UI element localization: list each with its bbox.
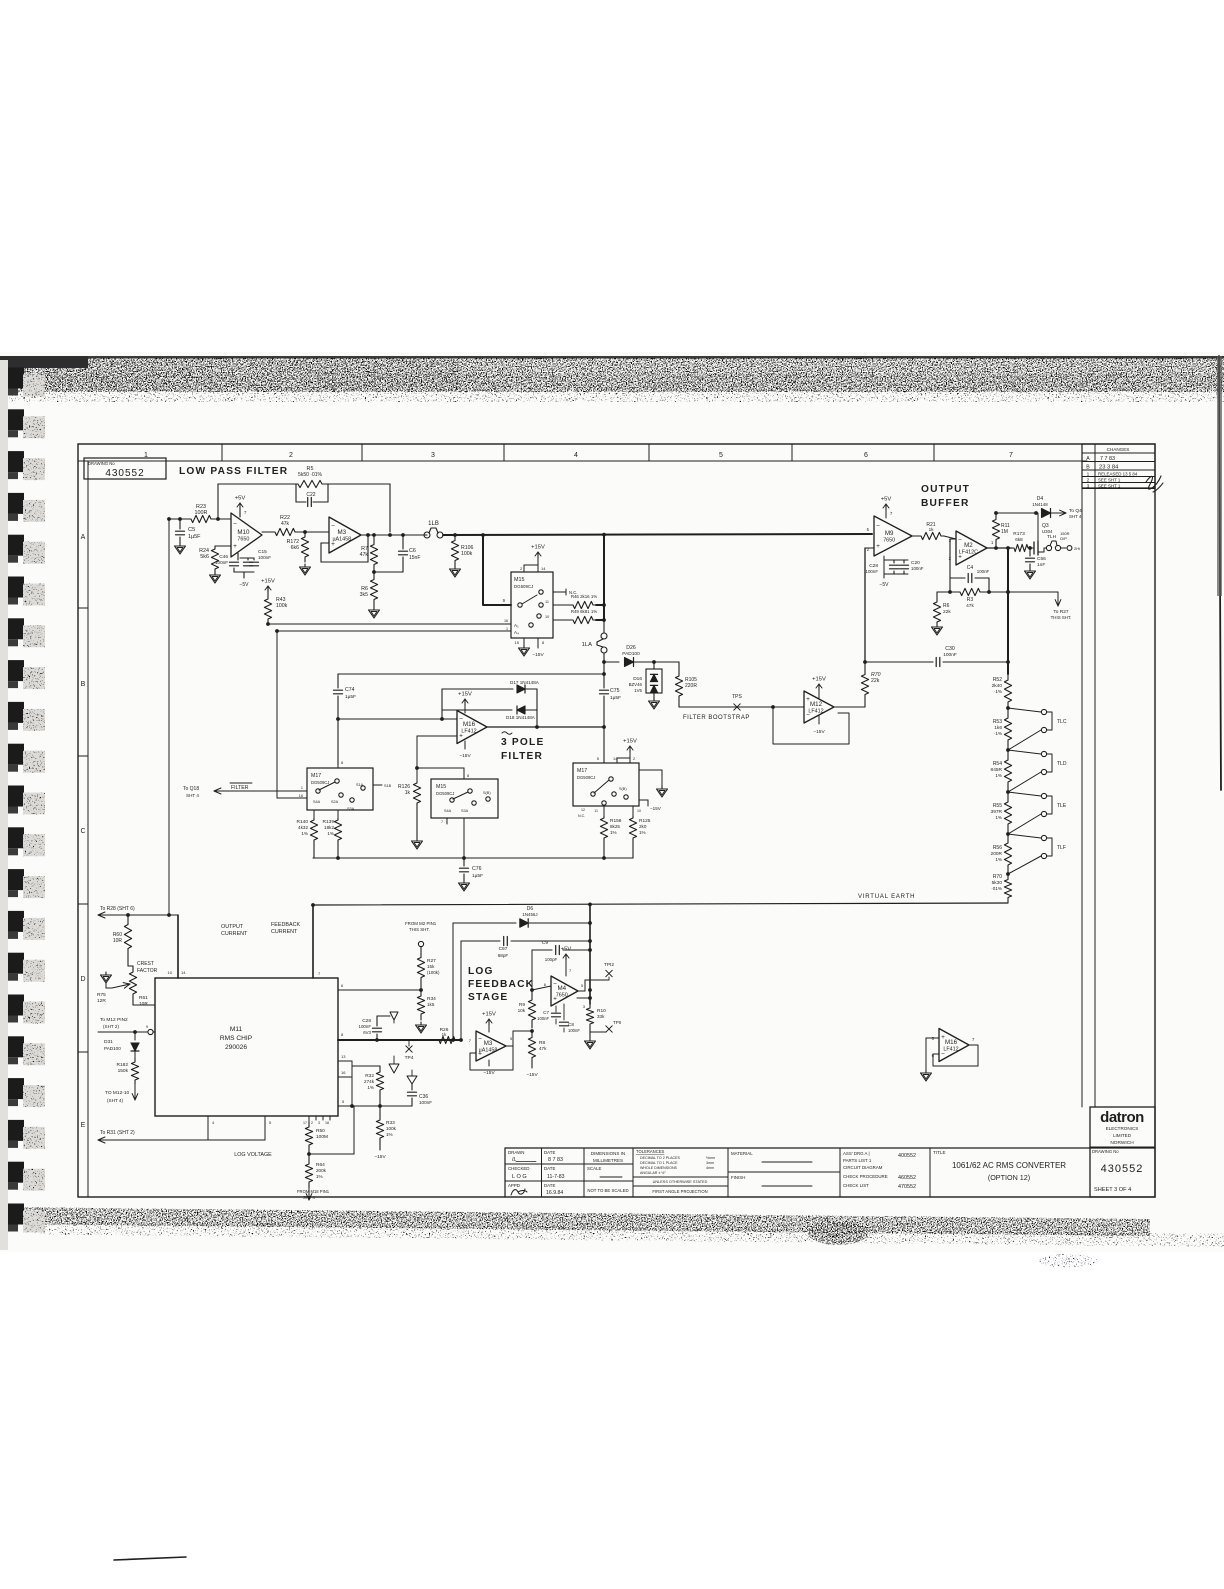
diode D4 — [1042, 509, 1051, 518]
op-amp M12 — [804, 691, 834, 723]
svg-text:M11: M11 — [230, 1026, 243, 1033]
svg-text:C9: C9 — [542, 940, 548, 946]
M17 second -15V — [639, 799, 648, 801]
diode D6 feedback — [453, 922, 516, 924]
svg-text:THIS SHT.: THIS SHT. — [409, 927, 430, 932]
M10 pin4 bypass C46 — [237, 553, 239, 560]
svg-text:6: 6 — [864, 452, 868, 459]
wire feedback current vertical — [312, 905, 314, 978]
capacitor C74 — [337, 674, 339, 688]
svg-text:SHT 4: SHT 4 — [186, 793, 199, 798]
ground for R106 — [454, 566, 456, 569]
resistor R26 — [434, 1036, 460, 1043]
svg-text:R61: R61 — [139, 995, 148, 1001]
svg-text:11: 11 — [594, 809, 598, 813]
svg-text:16: 16 — [504, 619, 508, 623]
svg-text:R56: R56 — [993, 845, 1002, 851]
M10 supply +5V — [239, 509, 241, 517]
svg-text:LOG VOLTAGE: LOG VOLTAGE — [234, 1152, 272, 1158]
control wire vertical to M17 — [276, 631, 278, 798]
svg-text:C: C — [80, 828, 85, 835]
resistor R156 — [603, 806, 605, 816]
testpoint TPS — [734, 704, 740, 710]
svg-text:100nF: 100nF — [977, 569, 990, 574]
svg-text:ANGULAR ± ½°: ANGULAR ± ½° — [640, 1171, 666, 1175]
svg-text:1V5: 1V5 — [634, 688, 642, 693]
svg-text:O/P: O/P — [1060, 536, 1067, 541]
svg-text:D: D — [80, 976, 85, 983]
svg-text:CREST: CREST — [137, 961, 154, 967]
terminal TLF — [1008, 834, 1041, 838]
M15 ground pin 15 — [523, 638, 525, 645]
svg-text:S(B): S(B) — [483, 791, 491, 795]
svg-text:LF412C: LF412C — [959, 550, 978, 556]
svg-text:17: 17 — [303, 1121, 307, 1125]
diode limiter D17 — [440, 717, 444, 721]
svg-text:−: − — [876, 523, 880, 530]
ground for R6 — [373, 607, 375, 610]
svg-text:150k: 150k — [118, 1068, 129, 1074]
capacitor C97 — [461, 940, 500, 942]
resistor R106 — [453, 533, 457, 537]
diode D31 — [133, 1030, 137, 1034]
svg-text:µA1458: µA1458 — [479, 1048, 498, 1054]
svg-text:D31: D31 — [104, 1039, 113, 1045]
svg-text:TO M12-10: TO M12-10 — [105, 1090, 130, 1096]
svg-text:10: 10 — [545, 615, 549, 619]
svg-text:14: 14 — [613, 757, 617, 761]
svg-text:BZV46: BZV46 — [629, 682, 643, 687]
resistor R23 — [186, 515, 216, 522]
op-amp M3 — [329, 517, 361, 553]
svg-text:47k: 47k — [966, 603, 974, 609]
svg-text:TPII: TPII — [613, 1020, 621, 1025]
virtual earth drop vertical — [589, 904, 591, 1004]
terminal TLE — [1008, 792, 1041, 796]
svg-text:1M: 1M — [1001, 529, 1008, 535]
svg-text:1%: 1% — [995, 773, 1002, 778]
svg-text:8k25: 8k25 — [610, 824, 620, 829]
svg-text:1%: 1% — [301, 831, 308, 836]
resistor R6 22k — [937, 591, 950, 593]
svg-text:+15V: +15V — [482, 1012, 496, 1018]
arrow to Q4 — [1058, 512, 1066, 514]
svg-text:2: 2 — [633, 757, 635, 761]
svg-text:9: 9 — [146, 1025, 148, 1029]
resistor R140 — [313, 810, 315, 818]
svg-text:D17 1N4148A: D17 1N4148A — [510, 680, 540, 685]
svg-text:+: + — [876, 543, 880, 550]
changes column verticals — [1081, 489, 1083, 1108]
svg-text:SHT 4: SHT 4 — [303, 1195, 315, 1200]
resistor R9 — [528, 992, 535, 1028]
svg-text:FIRST ANGLE PROJECTION: FIRST ANGLE PROJECTION — [652, 1189, 707, 1194]
svg-text:1k: 1k — [405, 790, 411, 796]
resistor R5 — [291, 480, 329, 487]
svg-text:2: 2 — [311, 1121, 313, 1125]
wire M9 inverting input — [865, 547, 874, 549]
wire pin5 loop — [338, 1105, 354, 1107]
analog switch M15 — [511, 572, 553, 638]
svg-text:DRAWING No: DRAWING No — [88, 461, 115, 466]
svg-text:R50: R50 — [316, 1128, 325, 1134]
M16 spare input wire — [926, 1037, 939, 1039]
M16 supplies — [464, 704, 466, 713]
wire M16 noninverting from R126 — [417, 735, 457, 737]
svg-text:C6: C6 — [409, 548, 416, 554]
svg-text:B: B — [1086, 465, 1090, 471]
svg-text:47k: 47k — [539, 1046, 547, 1051]
resistor R34 — [417, 990, 424, 1020]
svg-text:1LB: 1LB — [428, 521, 439, 527]
ground for M16 spare — [925, 1070, 927, 1073]
M12 supplies — [818, 690, 820, 698]
svg-text:SHEET 3 OF 4: SHEET 3 OF 4 — [1094, 1187, 1131, 1193]
svg-text:D26: D26 — [626, 645, 636, 651]
svg-text:L O G: L O G — [512, 1174, 527, 1180]
resistor R6 — [370, 572, 377, 607]
svg-text:430552: 430552 — [105, 468, 144, 479]
wire C97 left vertical — [460, 941, 462, 1040]
resistor R46 — [553, 604, 570, 606]
svg-text:(SHT 4): (SHT 4) — [107, 1098, 123, 1103]
svg-text:WHOLE DIMENSIONS: WHOLE DIMENSIONS — [640, 1166, 678, 1170]
svg-text:datron: datron — [1100, 1109, 1144, 1126]
svg-text:·1%: ·1% — [994, 731, 1002, 736]
transistor Q3 — [1030, 547, 1033, 549]
scan right edge line — [1219, 356, 1221, 790]
svg-text:−15V: −15V — [813, 729, 825, 735]
svg-text:SEE SHT 1: SEE SHT 1 — [1098, 478, 1121, 483]
svg-text:R3: R3 — [967, 597, 974, 603]
svg-text:1µ5F: 1µ5F — [188, 534, 201, 540]
M17 pin1 wire to filter control — [214, 790, 307, 792]
svg-text:IL: IL — [512, 1157, 517, 1163]
resistor R55 — [1004, 792, 1011, 834]
wire M3 output to R9 R8 node — [506, 1045, 513, 1047]
svg-text:DATE: DATE — [544, 1150, 555, 1155]
datron logo box — [1090, 1107, 1155, 1197]
resistor R56 — [1004, 834, 1011, 874]
jumper 1LA — [603, 621, 605, 633]
svg-text:−15V: −15V — [459, 753, 471, 759]
wire M4 output TP12 — [578, 990, 585, 992]
potentiometer R61 — [127, 958, 129, 966]
svg-text:TOLERANCES: TOLERANCES — [636, 1149, 665, 1154]
capacitor C20 — [900, 564, 909, 566]
svg-text:3 POLE: 3 POLE — [501, 737, 544, 748]
svg-text:15: 15 — [515, 640, 520, 645]
svg-text:R6: R6 — [943, 603, 950, 609]
svg-text:TLF: TLF — [1057, 845, 1066, 851]
svg-text:M4: M4 — [557, 985, 566, 992]
stray pen mark — [114, 1557, 186, 1560]
ground for D16 — [653, 693, 655, 698]
svg-text:DATE: DATE — [544, 1183, 555, 1188]
svg-text:UNLESS OTHERWISE STATED: UNLESS OTHERWISE STATED — [653, 1180, 708, 1184]
svg-text:−15V: −15V — [650, 806, 662, 811]
RMS chip M11 — [155, 978, 338, 1116]
svg-text:C4: C4 — [967, 565, 974, 571]
capacitor C36 — [379, 1096, 381, 1106]
svg-text:100nF: 100nF — [215, 560, 228, 565]
op-amp M16 — [457, 711, 487, 744]
svg-text:TLE: TLE — [1057, 803, 1067, 809]
svg-text:MATERIAL: MATERIAL — [731, 1151, 753, 1156]
svg-text:47k: 47k — [281, 521, 290, 527]
svg-text:−15V: −15V — [532, 652, 544, 658]
svg-text:15nF: 15nF — [409, 555, 420, 561]
control wire A1 — [268, 623, 511, 625]
svg-text:R54: R54 — [993, 761, 1002, 767]
svg-text:CIRCUIT DIAGRAM: CIRCUIT DIAGRAM — [843, 1165, 883, 1170]
svg-text:R49 6k81 1%: R49 6k81 1% — [571, 609, 597, 614]
wire drop to M15 pin 9 — [483, 535, 511, 605]
resistor R64 — [305, 1158, 312, 1188]
svg-text:½mm: ½mm — [706, 1156, 715, 1160]
svg-text:RMS CHIP: RMS CHIP — [220, 1035, 253, 1042]
svg-text:C22: C22 — [306, 492, 315, 498]
svg-text:100nF: 100nF — [568, 1028, 580, 1033]
border grid number strip — [78, 460, 1087, 462]
svg-text:14: 14 — [181, 970, 186, 975]
svg-text:470552: 470552 — [898, 1184, 916, 1190]
svg-text:U304: U304 — [1042, 529, 1053, 534]
wire M2 output — [987, 547, 1012, 549]
resistor R54 — [1004, 750, 1011, 792]
svg-text:DRAWN: DRAWN — [508, 1150, 524, 1155]
svg-text:S1B: S1B — [384, 784, 392, 788]
svg-text:R70: R70 — [993, 874, 1002, 880]
wire M12 output — [834, 706, 865, 708]
svg-text:LF412: LF412 — [943, 1047, 958, 1053]
resistor R60 — [124, 915, 131, 958]
svg-text:100M: 100M — [316, 1134, 328, 1140]
svg-text:274k: 274k — [364, 1079, 375, 1084]
resistor R27 — [418, 941, 423, 946]
svg-text:−: − — [958, 537, 962, 544]
svg-text:1: 1 — [1087, 472, 1090, 478]
border row letter strip — [87, 461, 89, 1197]
svg-text:TITLE: TITLE — [933, 1150, 946, 1155]
svg-text:1%: 1% — [639, 830, 646, 835]
approval scribble — [1146, 476, 1163, 492]
svg-text:7: 7 — [441, 820, 443, 824]
capacitor C76 — [463, 858, 465, 866]
svg-text:100nF: 100nF — [866, 569, 879, 574]
svg-text:ASS’ DRG A |: ASS’ DRG A | — [843, 1151, 870, 1156]
svg-text:100R: 100R — [195, 510, 208, 516]
svg-text:100k: 100k — [386, 1126, 397, 1131]
testpoint TP4 — [408, 1040, 410, 1046]
svg-text:2k0: 2k0 — [639, 824, 647, 829]
svg-text:1N4148: 1N4148 — [1032, 502, 1048, 507]
M9 supply +5V — [885, 510, 887, 518]
scan noise band top — [0, 356, 1224, 359]
svg-text:DG509CJ: DG509CJ — [311, 780, 329, 785]
C4 R3 feedback network — [950, 538, 956, 540]
svg-text:+15V: +15V — [458, 692, 472, 698]
ground for C76 — [463, 880, 465, 883]
scan noise band bottom — [0, 1207, 1150, 1236]
M15 supply +15V — [523, 565, 525, 572]
svg-text:A: A — [81, 534, 86, 541]
svg-text:C7: C7 — [543, 1010, 549, 1015]
svg-text:−15V: −15V — [374, 1154, 386, 1160]
svg-text:To R28 (SHT 6): To R28 (SHT 6) — [100, 906, 135, 912]
svg-text:16: 16 — [341, 1070, 346, 1075]
svg-text:C8: C8 — [568, 1022, 574, 1027]
capacitor C5 — [178, 517, 182, 521]
svg-text:A: A — [1086, 456, 1090, 462]
ground for R126 — [416, 804, 418, 838]
svg-text:M16: M16 — [945, 1039, 958, 1046]
svg-text:CHECK LIST: CHECK LIST — [843, 1183, 869, 1188]
jumper 1LB — [424, 532, 430, 538]
wire input to R23 — [169, 518, 186, 520]
svg-text:TPI2: TPI2 — [604, 962, 614, 968]
resistor R172 — [301, 532, 308, 562]
svg-text:S4A: S4A — [444, 809, 452, 813]
svg-text:FILTER BOOTSTRAP: FILTER BOOTSTRAP — [683, 715, 750, 721]
wire pin6 to R27 — [338, 989, 421, 991]
svg-text:(SHT 2): (SHT 2) — [103, 1024, 119, 1029]
bus vertical M2 output — [1007, 548, 1009, 674]
svg-text:100k: 100k — [276, 603, 288, 609]
svg-text:S1A: S1A — [356, 783, 364, 787]
testpoint TP11 — [589, 1028, 591, 1032]
svg-text:R55: R55 — [993, 803, 1002, 809]
svg-text:CHANGES: CHANGES — [1107, 447, 1130, 452]
resistor R43 — [267, 586, 269, 592]
svg-text:D18 1N4148A: D18 1N4148A — [506, 715, 536, 720]
bus vertical at filter input — [603, 535, 605, 621]
svg-text:C76: C76 — [472, 866, 482, 872]
svg-text:DG509CJ: DG509CJ — [577, 775, 595, 780]
svg-text:100nF: 100nF — [943, 652, 957, 658]
svg-text:M16: M16 — [463, 721, 476, 728]
svg-text:FINISH: FINISH — [731, 1175, 745, 1180]
border frame outer — [78, 444, 1155, 1197]
svg-text:18: 18 — [325, 1121, 329, 1125]
svg-text:6V3: 6V3 — [363, 1030, 371, 1035]
svg-text:C30: C30 — [945, 646, 955, 652]
svg-text:23 3 84: 23 3 84 — [1099, 465, 1119, 471]
svg-text:1µ5F: 1µ5F — [345, 694, 356, 700]
svg-text:+15V: +15V — [812, 677, 826, 683]
svg-text:DECIMAL TO 2 PLACES: DECIMAL TO 2 PLACES — [640, 1156, 680, 1160]
svg-text:THIS SHT.: THIS SHT. — [1051, 615, 1072, 620]
wire R22 to M3 — [298, 531, 329, 533]
wire input node vertical — [168, 519, 170, 915]
svg-text:6k6: 6k6 — [291, 545, 299, 551]
diode D26 — [602, 660, 606, 664]
svg-text:APPD: APPD — [508, 1183, 520, 1188]
svg-text:100k: 100k — [461, 551, 473, 557]
svg-text:1N456J: 1N456J — [522, 912, 537, 917]
svg-text:460552: 460552 — [898, 1175, 916, 1181]
svg-text:FROM M18 PIN1: FROM M18 PIN1 — [297, 1189, 330, 1194]
svg-text:R182: R182 — [117, 1062, 129, 1068]
svg-text:3: 3 — [431, 452, 435, 459]
svg-text:SEE SHT 1: SEE SHT 1 — [1098, 484, 1121, 489]
svg-text:(OPTION 12): (OPTION 12) — [988, 1173, 1030, 1182]
top feedback wire — [338, 673, 604, 675]
svg-text:M17: M17 — [577, 768, 587, 774]
diode D16 protection pair — [652, 660, 656, 664]
diode limiter D18 — [442, 709, 512, 711]
svg-text:OUTPUT: OUTPUT — [921, 484, 970, 495]
svg-text:12: 12 — [581, 808, 585, 812]
svg-text:To M12 PIN2: To M12 PIN2 — [100, 1017, 128, 1023]
svg-text:DRAWING No: DRAWING No — [1092, 1149, 1119, 1154]
title block outline — [505, 1147, 1155, 1149]
svg-text:22k: 22k — [943, 609, 951, 615]
svg-text:STAGE: STAGE — [468, 992, 508, 1003]
svg-text:M9: M9 — [885, 530, 894, 537]
resistor R32 — [352, 1065, 380, 1067]
svg-text:R75: R75 — [97, 992, 106, 998]
capacitor C8 — [563, 1004, 565, 1020]
svg-text:M15: M15 — [436, 784, 446, 790]
svg-text:PAD100: PAD100 — [104, 1046, 121, 1051]
svg-text:15k: 15k — [427, 964, 435, 969]
svg-text:1%: 1% — [995, 857, 1002, 862]
svg-text:−15V: −15V — [526, 1072, 538, 1078]
svg-text:µA1458: µA1458 — [332, 537, 351, 543]
ground for R6 22k — [936, 624, 938, 627]
svg-text:200k: 200k — [316, 1168, 327, 1173]
M3 feedback loop lower — [470, 1046, 513, 1070]
capacitor C6 — [401, 533, 405, 537]
terminal TLD — [1008, 750, 1041, 754]
svg-text:16.9.84: 16.9.84 — [546, 1190, 563, 1196]
svg-text:10: 10 — [168, 970, 173, 975]
wire To R31 — [98, 1139, 265, 1141]
capacitor C75 — [603, 662, 605, 674]
svg-text:TLH: TLH — [1047, 534, 1057, 540]
resistor R53 — [1004, 708, 1011, 750]
svg-text:C75: C75 — [610, 688, 620, 694]
resistor R75 — [112, 986, 121, 988]
svg-text:100nF: 100nF — [911, 566, 924, 571]
svg-text:1%: 1% — [327, 831, 334, 836]
svg-text:·1%: ·1% — [994, 689, 1002, 694]
svg-text:CHECKED: CHECKED — [508, 1166, 529, 1171]
svg-text:LIMITED: LIMITED — [1113, 1133, 1132, 1138]
svg-text:100nF: 100nF — [419, 1100, 432, 1105]
rail -5V — [234, 571, 254, 573]
svg-text:−5V: −5V — [879, 582, 889, 588]
analog switch M15 second — [431, 779, 498, 818]
svg-text:1: 1 — [506, 627, 508, 631]
svg-text:+15V: +15V — [623, 739, 637, 745]
svg-text:M10: M10 — [237, 529, 250, 536]
svg-text:S3A: S3A — [461, 809, 469, 813]
svg-text:CURRENT: CURRENT — [221, 931, 248, 937]
M17 right NC pin — [373, 784, 382, 786]
analog switch M17 second — [573, 763, 639, 806]
op-amp M9 — [874, 516, 912, 556]
svg-text:1%: 1% — [367, 1085, 374, 1090]
svg-text:BUFFER: BUFFER — [921, 498, 970, 509]
svg-text:M15: M15 — [514, 577, 525, 583]
M15 NC pin — [553, 591, 566, 593]
wire C74 to M16 input — [336, 717, 340, 721]
changes table — [1082, 444, 1155, 488]
capacitor C56 — [1028, 546, 1032, 550]
svg-text:R53: R53 — [993, 719, 1002, 725]
